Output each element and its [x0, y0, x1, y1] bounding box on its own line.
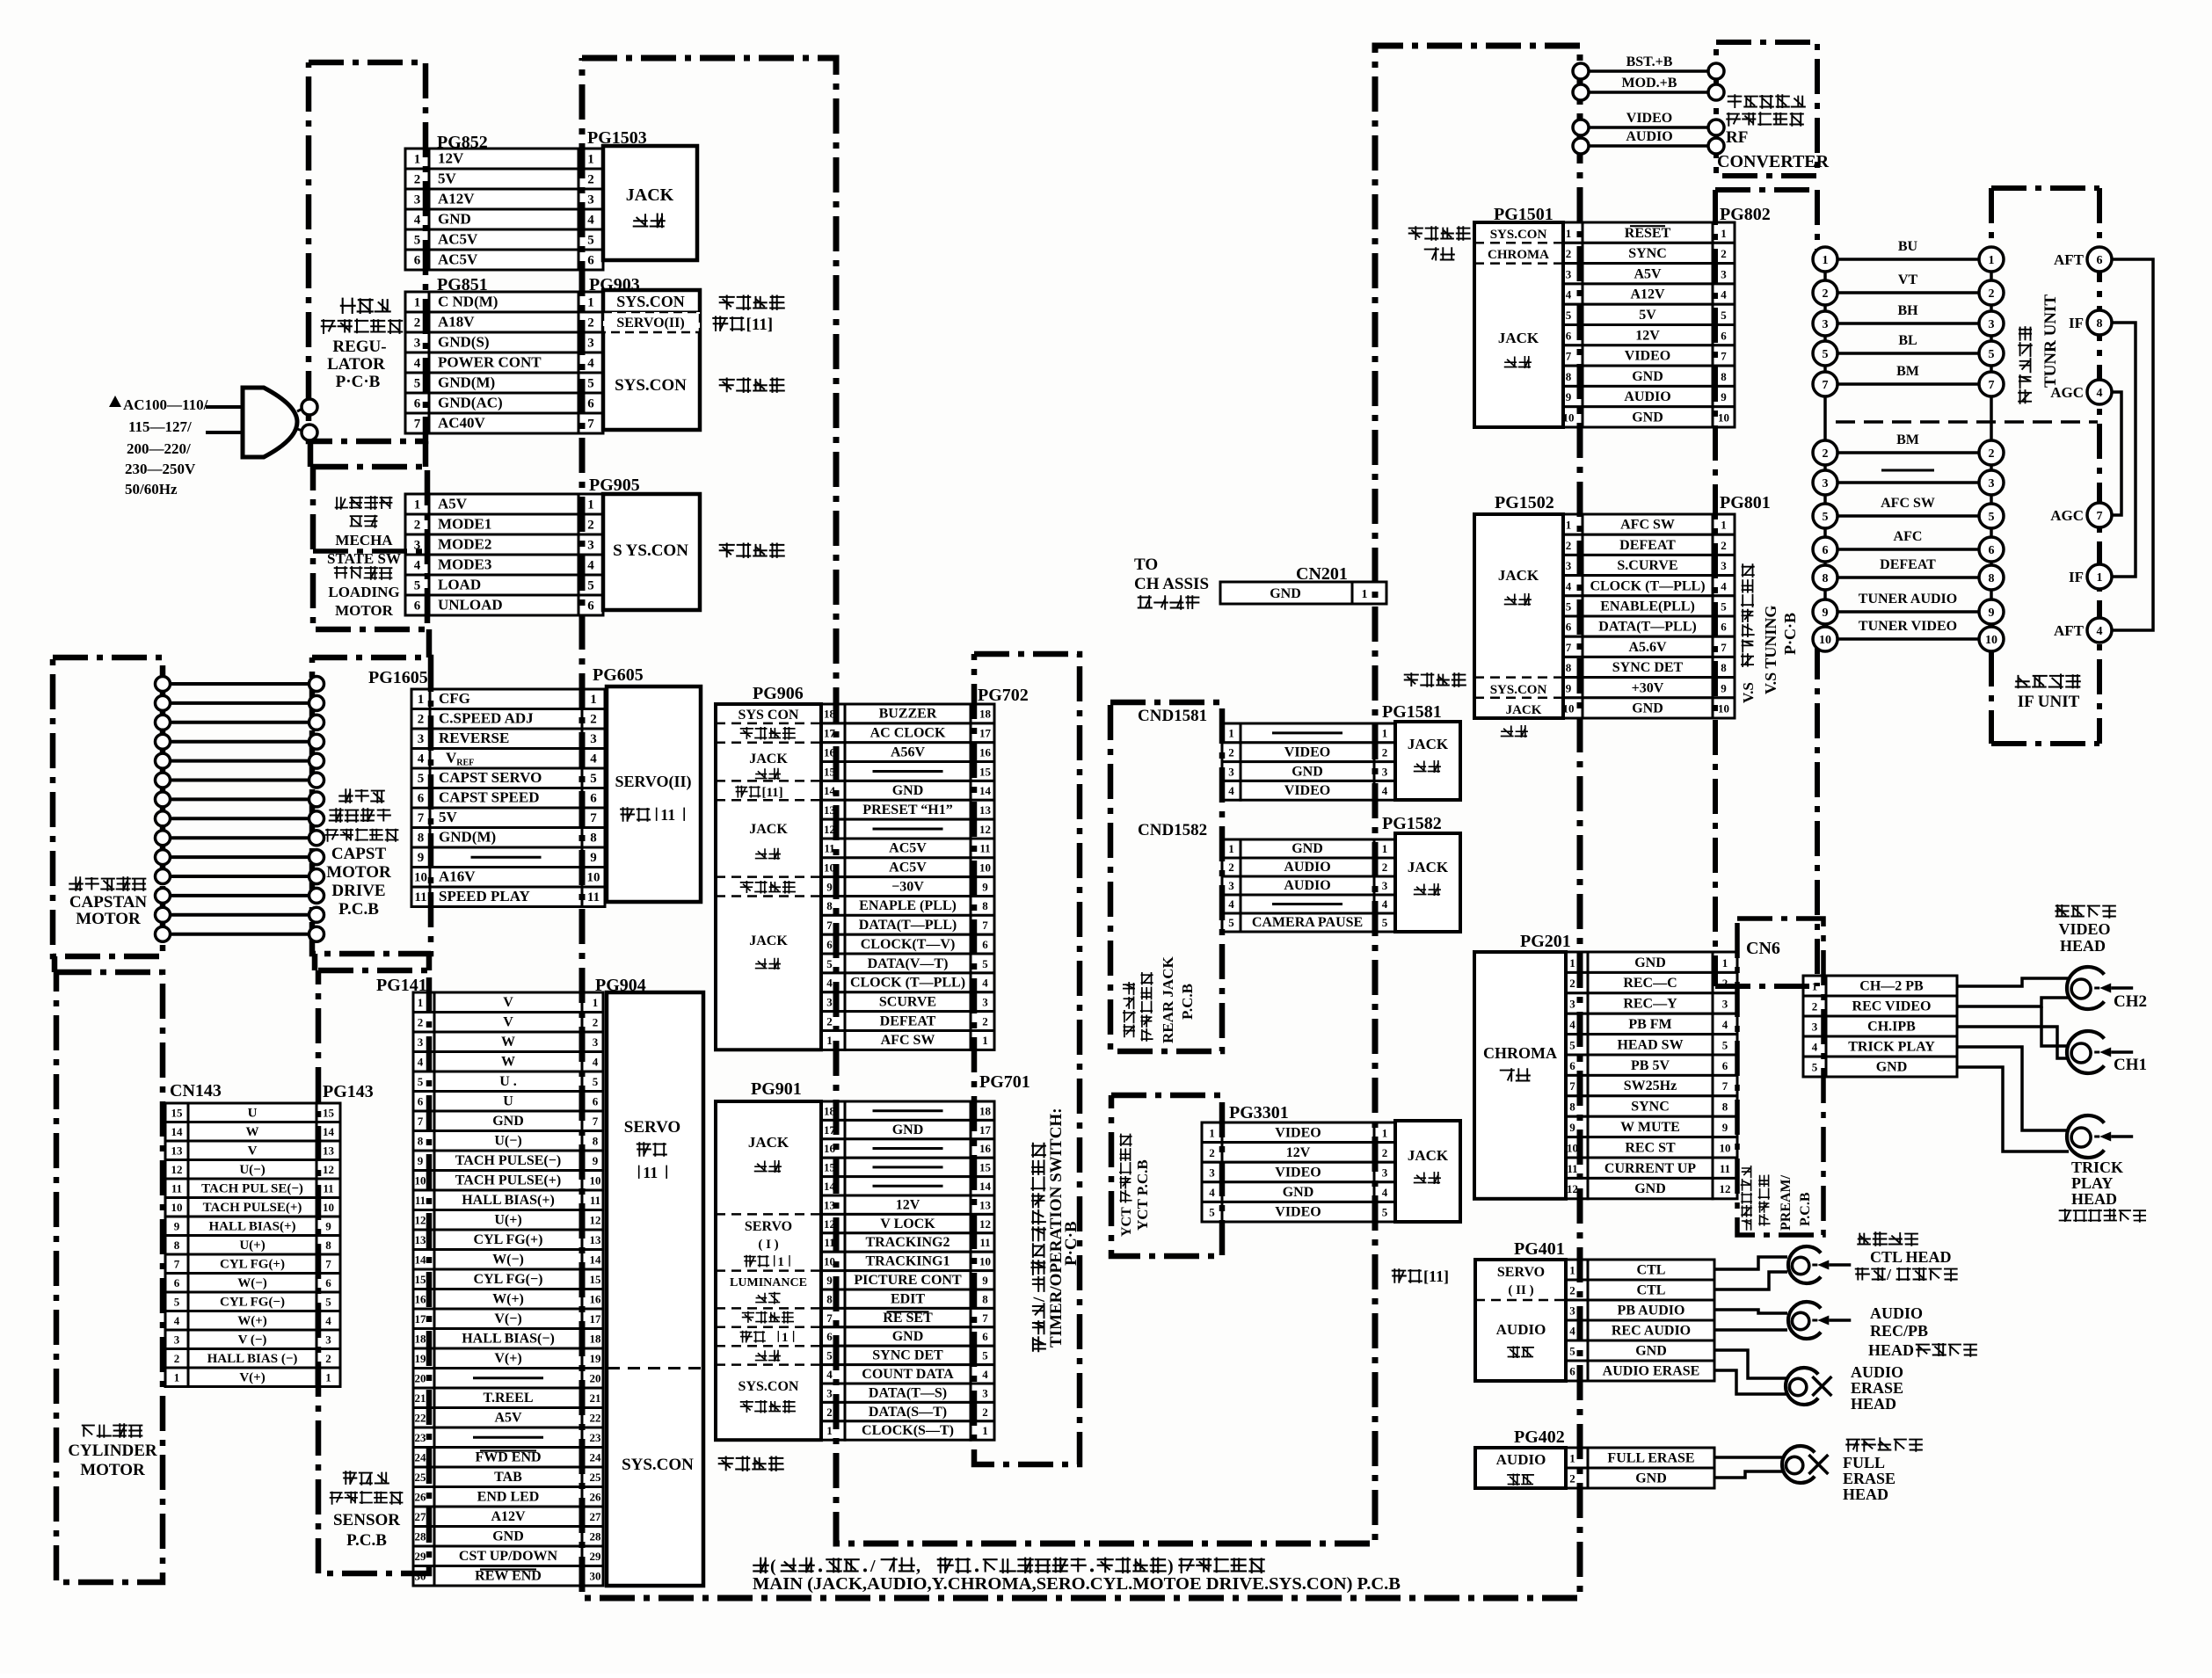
- svg-text:8: 8: [418, 1135, 424, 1148]
- IF unit pin circles: [2016, 675, 2080, 688]
- svg-text:4: 4: [982, 977, 988, 990]
- svg-text:10: 10: [590, 1174, 601, 1188]
- svg-text:AUDIO: AUDIO: [1284, 878, 1330, 893]
- svg-text:1: 1: [587, 296, 594, 310]
- IF unit pin 4 AGC: [2087, 380, 2112, 404]
- svg-text:9: 9: [1721, 681, 1727, 694]
- video head CH1: [2067, 1031, 2104, 1073]
- svg-text:FULL ERASE: FULL ERASE: [1607, 1451, 1694, 1466]
- svg-text:CURRENT UP: CURRENT UP: [1604, 1161, 1696, 1176]
- svg-text:AUDIO: AUDIO: [1624, 389, 1670, 404]
- box: REGULATOR P.C.B 稳压器: [309, 62, 426, 441]
- svg-text:12: 12: [323, 1163, 334, 1176]
- svg-text:GND: GND: [1632, 410, 1663, 425]
- svg-text:7: 7: [414, 418, 421, 432]
- svg-text:8: 8: [1721, 370, 1727, 383]
- svg-text:BM: BM: [1896, 432, 1919, 447]
- svg-text:5: 5: [1721, 600, 1727, 614]
- svg-text:RESET: RESET: [1625, 226, 1671, 241]
- svg-text:TRICK: TRICK: [2071, 1159, 2123, 1176]
- svg-text:SYNC DET: SYNC DET: [872, 1348, 943, 1363]
- svg-text:5: 5: [1823, 348, 1829, 361]
- svg-text:5: 5: [587, 579, 594, 593]
- svg-text:): ): [1168, 1557, 1174, 1576]
- svg-text:PG1502: PG1502: [1495, 493, 1554, 512]
- svg-text:6: 6: [982, 938, 988, 951]
- svg-text:3: 3: [1228, 765, 1234, 778]
- svg-text:PICTURE CONT: PICTURE CONT: [854, 1273, 962, 1288]
- svg-text:REAR JACK: REAR JACK: [1160, 956, 1176, 1043]
- svg-text:HEAD SW: HEAD SW: [1617, 1037, 1683, 1052]
- svg-text:1: 1: [174, 1371, 180, 1384]
- svg-text:CLOCK(S—T): CLOCK(S—T): [862, 1423, 954, 1438]
- svg-text:PB AUDIO: PB AUDIO: [1618, 1304, 1685, 1318]
- svg-text:AUDIO: AUDIO: [1496, 1451, 1546, 1468]
- svg-text:PB FM: PB FM: [1628, 1017, 1671, 1032]
- svg-text:CAMERA PAUSE: CAMERA PAUSE: [1252, 915, 1363, 930]
- svg-text:TO: TO: [1134, 556, 1158, 574]
- svg-text:U(−): U(−): [494, 1134, 521, 1149]
- svg-text:PG605: PG605: [593, 665, 644, 685]
- svg-text:PG905: PG905: [589, 476, 640, 495]
- svg-text:W(+): W(+): [237, 1314, 267, 1328]
- header column PG901: [716, 1101, 821, 1440]
- svg-text:1: 1: [414, 296, 421, 310]
- svg-text:JACK: JACK: [749, 822, 788, 837]
- svg-text:10: 10: [1718, 411, 1729, 425]
- wire tuner pin 5 BL: [1837, 352, 1980, 355]
- svg-text:2: 2: [1823, 287, 1829, 301]
- svg-text:HALL BIAS(−): HALL BIAS(−): [462, 1332, 555, 1347]
- svg-text:CLOCK (T—PLL): CLOCK (T—PLL): [1590, 578, 1705, 593]
- svg-text:ERASE: ERASE: [1843, 1470, 1895, 1487]
- svg-text:28: 28: [415, 1530, 427, 1544]
- svg-text:2: 2: [1569, 1284, 1575, 1297]
- box: YCT P.C.B: [1111, 1095, 1222, 1256]
- wire MOD.+B: [1581, 91, 1716, 94]
- svg-text:14: 14: [415, 1253, 427, 1267]
- svg-text:5V: 5V: [439, 809, 458, 825]
- svg-text:17: 17: [590, 1312, 602, 1326]
- wire capstan 6: [168, 779, 309, 782]
- svg-text:3: 3: [1721, 267, 1727, 280]
- svg-text:DEFEAT: DEFEAT: [1619, 538, 1676, 553]
- svg-text:6: 6: [414, 599, 421, 614]
- svg-text:VIDEO: VIDEO: [1275, 1205, 1321, 1220]
- wire capstan 3: [168, 721, 309, 724]
- svg-text:CH.IPB: CH.IPB: [1867, 1020, 1916, 1035]
- svg-text:JACK: JACK: [748, 1134, 789, 1151]
- AC power plug: [243, 388, 297, 457]
- svg-text:CAPST SERVO: CAPST SERVO: [439, 769, 542, 786]
- svg-text:PG1605: PG1605: [368, 668, 428, 687]
- svg-text:PG801: PG801: [1720, 493, 1771, 512]
- svg-text:5: 5: [1722, 1038, 1728, 1051]
- svg-text:9: 9: [1989, 607, 1995, 620]
- svg-text:7: 7: [982, 1311, 988, 1325]
- svg-text:CYL FG(−): CYL FG(−): [220, 1296, 285, 1310]
- svg-text:5: 5: [1812, 1061, 1818, 1074]
- svg-text:1: 1: [1209, 1126, 1215, 1139]
- svg-text:AC5V: AC5V: [889, 861, 927, 875]
- svg-text:5: 5: [587, 234, 594, 248]
- svg-text:14: 14: [323, 1125, 335, 1138]
- svg-text:AC5V: AC5V: [438, 251, 478, 268]
- svg-text:4: 4: [587, 559, 594, 573]
- svg-text:3: 3: [1823, 477, 1829, 490]
- svg-text:2: 2: [1721, 247, 1727, 260]
- svg-text:6: 6: [1989, 544, 1995, 557]
- svg-text:21: 21: [590, 1391, 601, 1405]
- svg-text:VIDEO: VIDEO: [1626, 111, 1672, 126]
- svg-text:6: 6: [1569, 1365, 1575, 1378]
- svg-text:AC100—110/: AC100—110/: [123, 396, 208, 413]
- svg-text:BUZZER: BUZZER: [879, 707, 937, 722]
- svg-text:4: 4: [2097, 387, 2103, 400]
- svg-text:12: 12: [979, 823, 991, 836]
- svg-text:5: 5: [1989, 348, 1995, 361]
- svg-text:5: 5: [414, 234, 421, 248]
- svg-text:29: 29: [415, 1550, 427, 1563]
- svg-text:3: 3: [418, 1035, 424, 1049]
- svg-text:8: 8: [1823, 572, 1829, 585]
- svg-text:28: 28: [590, 1530, 602, 1544]
- svg-text:14: 14: [171, 1125, 184, 1138]
- svg-text:18: 18: [979, 708, 992, 721]
- box: MECHA STATE SW: [313, 467, 427, 629]
- svg-text:LOAD: LOAD: [438, 577, 481, 593]
- svg-text:18: 18: [979, 1104, 992, 1117]
- rail segments: [308, 441, 314, 467]
- svg-text:DATA(T—PLL): DATA(T—PLL): [1598, 620, 1696, 635]
- svg-text:BM: BM: [1896, 364, 1919, 379]
- svg-text:3: 3: [1382, 765, 1388, 778]
- svg-text:HALL BIAS(+): HALL BIAS(+): [462, 1193, 555, 1208]
- wire tuner pin 10 TUNER VIDEO: [1837, 637, 1980, 641]
- svg-text:2: 2: [593, 1016, 599, 1029]
- svg-text:GND: GND: [1632, 369, 1663, 384]
- svg-text:11: 11: [1567, 1162, 1577, 1175]
- wire capstan 1: [168, 682, 309, 686]
- svg-text:5: 5: [826, 1349, 833, 1362]
- svg-text:MODE2: MODE2: [438, 536, 491, 553]
- svg-text:3: 3: [414, 337, 421, 351]
- svg-text:22: 22: [415, 1412, 426, 1425]
- svg-text:MOTOR: MOTOR: [80, 1461, 145, 1479]
- svg-text:GND(M): GND(M): [438, 374, 495, 391]
- svg-text:UNLOAD: UNLOAD: [438, 597, 503, 614]
- svg-text:PG402: PG402: [1514, 1427, 1565, 1447]
- svg-text:GND: GND: [892, 1329, 924, 1344]
- svg-text:GND(M): GND(M): [439, 829, 496, 846]
- svg-text:PG701: PG701: [979, 1072, 1030, 1092]
- svg-text:HEAD: HEAD: [2071, 1190, 2117, 1208]
- svg-text:GND: GND: [1876, 1060, 1908, 1075]
- svg-text:AUDIO: AUDIO: [1626, 129, 1672, 144]
- svg-text:13: 13: [171, 1144, 184, 1158]
- svg-text:7: 7: [1569, 1079, 1575, 1093]
- svg-text:6: 6: [1823, 544, 1829, 557]
- svg-text:26: 26: [590, 1491, 602, 1504]
- svg-text:4: 4: [414, 214, 421, 228]
- svg-text:VIDEO: VIDEO: [2058, 920, 2110, 938]
- svg-text:POWER CONT: POWER CONT: [438, 354, 542, 371]
- svg-text:1: 1: [1569, 956, 1575, 970]
- svg-text:1: 1: [1362, 588, 1368, 601]
- svg-text:PG143: PG143: [323, 1082, 374, 1101]
- svg-text:8: 8: [826, 899, 833, 912]
- svg-text:3: 3: [587, 539, 594, 553]
- svg-text:12V: 12V: [1635, 328, 1660, 343]
- svg-text:AFC SW: AFC SW: [1881, 496, 1935, 511]
- svg-text:W(−): W(−): [492, 1253, 524, 1268]
- svg-text:4: 4: [593, 1056, 599, 1069]
- svg-text:SYS.CON: SYS.CON: [1490, 228, 1547, 242]
- svg-text:2: 2: [1989, 287, 1995, 301]
- svg-text:V(+): V(+): [494, 1351, 521, 1366]
- svg-text:4: 4: [1228, 897, 1234, 911]
- svg-text:6: 6: [418, 1095, 424, 1108]
- svg-text:1: 1: [587, 153, 594, 167]
- svg-text:P·C·B: P·C·B: [1781, 613, 1799, 655]
- jack box PG1503: [603, 146, 697, 260]
- svg-text:S YS.CON: S YS.CON: [613, 541, 688, 560]
- svg-text:TAB: TAB: [494, 1470, 522, 1485]
- svg-text:4: 4: [325, 1314, 331, 1327]
- svg-text:TACH PULSE(−): TACH PULSE(−): [455, 1153, 561, 1168]
- svg-text:11: 11: [590, 1194, 600, 1207]
- svg-text:29: 29: [590, 1550, 602, 1563]
- svg-text:EDIT: EDIT: [891, 1291, 925, 1306]
- trick play head: [2067, 1115, 2104, 1158]
- svg-text:11: 11: [660, 806, 675, 824]
- svg-text:1: 1: [982, 1424, 988, 1437]
- svg-text:4: 4: [1382, 1186, 1388, 1199]
- video head CH2: [2067, 967, 2104, 1009]
- svg-text:9: 9: [982, 1274, 988, 1287]
- svg-text:6: 6: [2097, 254, 2103, 267]
- svg-text:V(+): V(+): [239, 1371, 265, 1385]
- svg-text:3: 3: [982, 996, 988, 1009]
- svg-text:2: 2: [826, 1014, 833, 1028]
- svg-text:7: 7: [1989, 379, 1995, 392]
- IF unit pin 6 AFT: [2087, 247, 2112, 272]
- svg-text:A56V: A56V: [891, 745, 926, 759]
- svg-text:10: 10: [414, 871, 427, 885]
- svg-text:3: 3: [982, 1386, 988, 1399]
- svg-text:25: 25: [415, 1471, 427, 1484]
- svg-text:5: 5: [587, 377, 594, 391]
- svg-text:CYL FG(+): CYL FG(+): [220, 1258, 285, 1272]
- svg-text:5: 5: [593, 1075, 599, 1088]
- svg-text:1: 1: [418, 693, 425, 707]
- svg-text:6: 6: [418, 792, 425, 806]
- svg-text:SYS.CON: SYS.CON: [739, 1379, 799, 1394]
- svg-text:YCT: YCT: [1119, 1207, 1134, 1237]
- svg-text:CHROMA: CHROMA: [1483, 1044, 1557, 1062]
- svg-text:AFC: AFC: [1894, 529, 1923, 544]
- svg-text:2: 2: [174, 1352, 180, 1365]
- svg-text:SERVO: SERVO: [624, 1118, 680, 1137]
- svg-text:11: 11: [587, 890, 600, 904]
- svg-text:7: 7: [826, 919, 833, 932]
- svg-text:AFT: AFT: [2054, 622, 2085, 639]
- svg-text:SYS.CON: SYS.CON: [616, 293, 685, 310]
- svg-text:SYNC: SYNC: [1628, 246, 1667, 261]
- wire capstan 12: [168, 894, 309, 897]
- svg-text:4: 4: [1722, 1018, 1728, 1031]
- svg-text:1: 1: [1382, 842, 1388, 855]
- svg-text:13: 13: [979, 803, 992, 817]
- svg-text:PG1582: PG1582: [1382, 814, 1442, 833]
- svg-text:5: 5: [1382, 916, 1388, 929]
- svg-text:C ND(M): C ND(M): [438, 294, 498, 310]
- svg-text:4: 4: [1228, 784, 1234, 797]
- svg-text:11: 11: [979, 1236, 990, 1249]
- svg-text:2: 2: [1569, 1472, 1575, 1486]
- svg-text:4: 4: [826, 1368, 833, 1381]
- svg-text:ENABLE(PLL): ENABLE(PLL): [1600, 599, 1695, 614]
- svg-text:P.C.B: P.C.B: [1179, 984, 1196, 1020]
- svg-text:,: ,: [916, 1557, 920, 1576]
- svg-text:GND: GND: [892, 783, 924, 798]
- svg-text:9: 9: [826, 1274, 833, 1287]
- wire tuner pin 5 AFC SW: [1837, 514, 1980, 518]
- svg-text:TUNER VIDEO: TUNER VIDEO: [1859, 619, 1957, 634]
- svg-text:3: 3: [1812, 1021, 1818, 1034]
- svg-text:5: 5: [982, 957, 988, 970]
- svg-text:CH—2 PB: CH—2 PB: [1859, 979, 1924, 994]
- box: CAPSTAN MOTOR: [53, 657, 163, 956]
- svg-text:17: 17: [415, 1312, 427, 1326]
- svg-text:6: 6: [1721, 329, 1727, 342]
- svg-text:5: 5: [982, 1349, 988, 1362]
- svg-text:2: 2: [1812, 1000, 1818, 1013]
- svg-text:2: 2: [414, 316, 421, 331]
- svg-text:7: 7: [593, 1115, 599, 1128]
- svg-text:2: 2: [1382, 861, 1388, 874]
- svg-text:5: 5: [1209, 1206, 1215, 1219]
- svg-text:8: 8: [1566, 370, 1572, 383]
- svg-text:JACK: JACK: [1506, 703, 1542, 717]
- svg-text:/: /: [1030, 1297, 1049, 1303]
- svg-text:5: 5: [1569, 1345, 1575, 1358]
- svg-text:27: 27: [415, 1510, 427, 1523]
- svg-text:11: 11: [415, 1194, 426, 1207]
- wire capstan 9: [168, 836, 309, 839]
- svg-text:4: 4: [587, 214, 594, 228]
- svg-text:4: 4: [1569, 1325, 1575, 1338]
- svg-text:3: 3: [826, 996, 833, 1009]
- svg-text:A18V: A18V: [438, 314, 475, 331]
- svg-text:2: 2: [1382, 1146, 1388, 1159]
- svg-text:4: 4: [826, 977, 833, 990]
- svg-text:GND: GND: [1632, 701, 1663, 716]
- svg-text:7: 7: [826, 1311, 833, 1325]
- svg-text:4: 4: [1566, 579, 1572, 592]
- svg-text:8: 8: [174, 1239, 180, 1252]
- svg-text:7: 7: [1721, 350, 1727, 363]
- svg-text:5: 5: [174, 1296, 180, 1309]
- svg-text:4: 4: [418, 752, 425, 766]
- svg-text:AC40V: AC40V: [438, 415, 486, 432]
- svg-text:SYS.CON: SYS.CON: [1490, 683, 1547, 697]
- wire tuner pin 9 TUNER AUDIO: [1837, 610, 1980, 614]
- svg-text:GND(AC): GND(AC): [438, 395, 503, 411]
- svg-text:15: 15: [323, 1107, 335, 1120]
- svg-text:SPEED PLAY: SPEED PLAY: [439, 888, 530, 904]
- svg-text:1: 1: [587, 498, 594, 512]
- svg-text:30: 30: [590, 1570, 601, 1583]
- svg-text:11: 11: [323, 1182, 333, 1195]
- wire capstan 7: [168, 797, 309, 801]
- svg-text:GND: GND: [438, 211, 471, 228]
- svg-text:JACK: JACK: [626, 185, 674, 205]
- svg-text:GND(S): GND(S): [438, 334, 490, 351]
- wire capstan 10: [168, 855, 309, 859]
- svg-text:5: 5: [1228, 916, 1234, 929]
- svg-text:2: 2: [982, 1014, 988, 1028]
- svg-text:W(−): W(−): [237, 1276, 267, 1290]
- svg-text:AFC SW: AFC SW: [881, 1033, 935, 1048]
- svg-text:5: 5: [1382, 1206, 1388, 1219]
- svg-text:CH2: CH2: [2114, 992, 2147, 1011]
- svg-text:DRIVE: DRIVE: [331, 882, 385, 900]
- svg-text:[11]: [11]: [1423, 1268, 1449, 1285]
- svg-text:DATA(V—T): DATA(V—T): [868, 956, 949, 971]
- svg-text:IF: IF: [2069, 315, 2084, 331]
- svg-text:7: 7: [982, 919, 988, 932]
- svg-text:8: 8: [2097, 317, 2103, 331]
- svg-text:AUDIO: AUDIO: [1851, 1363, 1903, 1381]
- svg-text:2: 2: [1209, 1146, 1215, 1159]
- svg-text:TRACKING2: TRACKING2: [865, 1235, 950, 1250]
- svg-text:17: 17: [979, 1123, 992, 1137]
- svg-text:CHROMA: CHROMA: [1488, 248, 1549, 262]
- svg-text:8: 8: [1566, 661, 1572, 674]
- box: RF CONVERTER: [1716, 42, 1817, 176]
- svg-text:115—127/: 115—127/: [128, 418, 192, 435]
- svg-text:9: 9: [1566, 681, 1572, 694]
- svg-text:TUNER AUDIO: TUNER AUDIO: [1859, 592, 1957, 607]
- svg-text:MOTOR: MOTOR: [76, 910, 141, 928]
- IF unit pin 4 AFT: [2087, 618, 2112, 643]
- svg-text:/: /: [1886, 1266, 1892, 1283]
- svg-text:15: 15: [590, 1273, 602, 1286]
- svg-text:FWD END: FWD END: [475, 1450, 541, 1465]
- svg-text:HEAD: HEAD: [1843, 1486, 1888, 1503]
- IF UNIT border line: [2097, 188, 2102, 744]
- svg-text:W(+): W(+): [492, 1292, 524, 1307]
- svg-text:U(+): U(+): [494, 1213, 521, 1228]
- svg-text:DEFEAT: DEFEAT: [1880, 557, 1936, 572]
- svg-text:W: W: [501, 1035, 515, 1050]
- svg-text:1: 1: [826, 1034, 833, 1047]
- svg-text:8: 8: [982, 899, 988, 912]
- svg-text:REW END: REW END: [475, 1569, 542, 1584]
- svg-text:DATA(S—T): DATA(S—T): [869, 1405, 947, 1420]
- svg-text:IF UNIT: IF UNIT: [2018, 693, 2080, 711]
- svg-text:19: 19: [415, 1352, 427, 1365]
- svg-text:4: 4: [1721, 579, 1727, 592]
- svg-text:A12V: A12V: [1630, 287, 1665, 302]
- svg-text:4: 4: [414, 559, 421, 573]
- wire tuner pin 8 DEFEAT: [1837, 576, 1980, 579]
- svg-text:2: 2: [1228, 746, 1234, 759]
- svg-text:16: 16: [979, 1142, 992, 1155]
- box: REAR JACK P.C.B: [1110, 702, 1222, 1051]
- svg-text:PB 5V: PB 5V: [1631, 1058, 1670, 1073]
